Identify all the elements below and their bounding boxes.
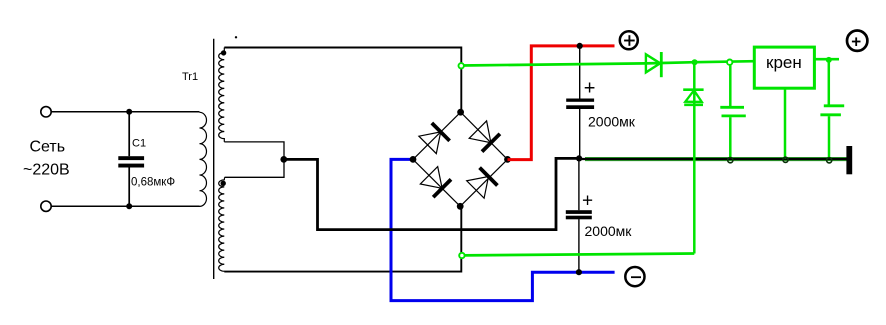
node C2/C3 on bus <box>576 155 582 161</box>
wire крен right pin <box>814 58 839 61</box>
wire mains top <box>51 111 199 113</box>
wire green top bus <box>461 61 754 65</box>
bridge arm bottom-right <box>460 159 507 206</box>
diode VD3 (left to bottom) <box>420 167 451 198</box>
wire center tap to ground bus (thick) <box>284 158 579 229</box>
terminal + output top <box>620 31 638 49</box>
ground symbol <box>846 146 852 174</box>
node center tap <box>280 156 287 163</box>
regulator U1 крен box <box>754 47 814 88</box>
bridge arm bottom-left <box>413 159 460 206</box>
zener VD6 green <box>683 62 703 253</box>
node C1 bottom <box>126 203 132 209</box>
wire secondary bottom to bridge <box>224 206 461 271</box>
diode VD2 (top to right) <box>469 121 500 152</box>
svg-text:~220В: ~220В <box>23 162 70 179</box>
capacitor C2 2000мк <box>566 46 594 158</box>
node green at zener <box>692 59 698 65</box>
ring on bus at C5 <box>827 158 832 163</box>
svg-text:Tr1: Tr1 <box>182 71 198 83</box>
ground bus green underlay <box>585 157 847 161</box>
diode VD1 (left to top) <box>419 123 450 154</box>
svg-text:Сеть: Сеть <box>30 138 66 155</box>
ring tap on bridge top wire <box>459 63 464 68</box>
capacitor C5 green <box>820 60 844 158</box>
svg-text:крен: крен <box>766 53 802 72</box>
phase dot winding II.1 <box>221 50 226 55</box>
transformer core <box>213 39 215 279</box>
diode VD5 green <box>646 52 661 77</box>
node bridge top <box>457 109 464 116</box>
node cap C2 top on red <box>577 43 583 49</box>
wire mains bottom <box>51 205 199 207</box>
terminal X2 (mains bottom) <box>41 201 51 211</box>
transformer T1 primary winding <box>200 112 207 206</box>
stray dot <box>235 36 237 38</box>
bridge arm top-right <box>461 112 508 159</box>
ring tap green cap branch <box>727 60 732 65</box>
ring tap on bridge bottom wire <box>459 253 464 258</box>
node bridge left <box>410 156 417 163</box>
svg-text:2000мк: 2000мк <box>588 113 636 129</box>
wire red plus rail <box>508 46 615 160</box>
ring on bus at крен pin <box>783 157 788 162</box>
svg-text:0,68мкФ: 0,68мкФ <box>131 176 175 188</box>
node bridge right <box>504 156 511 163</box>
wire winding II.1 end to center tap <box>224 142 284 177</box>
ring on bus at C4 <box>728 158 733 163</box>
transformer T1 secondary winding II.2 <box>219 177 225 271</box>
transformer T1 secondary winding II.1 <box>219 48 225 142</box>
terminal X1 (mains top) <box>41 107 51 117</box>
svg-text:+: + <box>584 77 596 99</box>
capacitor C1 <box>118 112 144 206</box>
capacitor C3 2000мк <box>566 159 592 272</box>
svg-text:+: + <box>582 190 593 211</box>
wire green bottom return <box>462 254 694 256</box>
node C1 top <box>126 109 132 115</box>
node green output <box>826 57 832 63</box>
wire blue minus rail <box>391 159 615 300</box>
wire крен bottom pin <box>784 88 787 158</box>
node C3 bottom on blue <box>576 269 582 275</box>
phase dot winding II.2 <box>221 181 226 186</box>
svg-text:C1: C1 <box>132 138 146 150</box>
terminal + regulated right <box>847 31 867 51</box>
terminal − output <box>625 267 644 286</box>
bridge arm top-left <box>413 112 461 159</box>
node bridge bottom <box>457 203 464 210</box>
diode VD4 (bottom to right) <box>467 168 498 199</box>
wire secondary top to bridge <box>224 48 461 113</box>
capacitor C4 green <box>720 65 746 158</box>
svg-text:2000мк: 2000мк <box>585 223 633 239</box>
ground bus <box>579 158 847 160</box>
